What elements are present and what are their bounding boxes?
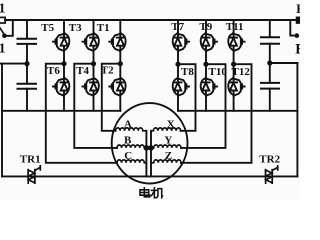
svg-text:E: E [295,42,300,58]
label motor (dian) [140,188,150,197]
transistor T1 [109,34,125,51]
svg-text:1: 1 [0,42,6,57]
svg-text:X: X [167,119,175,131]
capacitor C2 [18,84,37,89]
wire left rail [1,64,3,177]
node right capacitor midpoint [267,60,272,65]
connector box right [297,17,305,23]
svg-text:T7: T7 [171,21,184,33]
thyristor TR2 [266,166,278,183]
connector box left (terminal 1) [0,17,5,23]
svg-text:A: A [124,119,132,131]
winding B coil [117,145,146,148]
svg-text:TR1: TR1 [20,154,41,166]
capacitor C4 bottom lead [269,89,271,111]
winding A coil [116,128,147,131]
label motor (ji) [151,188,162,198]
capacitor C4 [261,83,279,89]
node switch S1 lower terminal [2,34,7,39]
svg-text:T4: T4 [76,65,89,77]
transistor T12 [228,78,244,95]
wire left bridge bottom bus [2,110,120,112]
wire T7-T8 leg [177,20,179,111]
transistor T7 [173,34,189,51]
capacitor C3 bottom lead [269,44,271,63]
node phase Z junction [231,62,236,67]
svg-text:Z: Z [165,150,172,162]
svg-text:B: B [124,134,132,146]
capacitor C2 top lead [26,64,28,84]
motor circle [112,103,188,183]
capacitor C3 [261,37,279,43]
wire T9-T10 leg [205,20,207,111]
wire right star bar [150,131,152,177]
wire phase Y tap [181,64,226,148]
node phase C junction [61,61,66,66]
wire T3-T4 leg [93,20,95,111]
thyristor TR1 [28,166,40,183]
capacitor C1 bottom lead [26,44,28,64]
node left star point [144,145,150,151]
capacitor C3 top lead [269,20,271,37]
svg-text:T3: T3 [69,22,82,34]
capacitor C1 top lead [26,20,28,38]
transistor T6 [53,78,69,95]
svg-text:E: E [296,2,300,16]
wire midpoint to left rail [1,63,28,65]
svg-text:T12: T12 [232,66,251,78]
wire T11-T12 leg [233,20,235,111]
svg-text:T1: T1 [97,22,110,34]
node phase Y junction [203,62,208,67]
wire phase C tap [46,64,117,163]
transistor T8 [173,78,189,95]
node left capacitor midpoint [24,61,29,66]
wire T5-T6 leg [63,20,65,111]
switch S1 blade [0,28,4,35]
wire phase A tap [102,64,121,131]
wire right bridge bottom bus [178,110,297,112]
svg-text:T8: T8 [181,66,194,78]
switch S2 drop wire [290,20,295,36]
node right star point [148,145,154,151]
node phase B junction [91,61,96,66]
wire midpoint to right rail [270,62,298,64]
svg-text:T5: T5 [41,22,54,34]
svg-text:T2: T2 [101,64,114,76]
wire phase Z tap [181,64,252,163]
transistor T3 [83,34,99,51]
transistor T10 [201,78,217,95]
capacitor C2 bottom lead [26,89,28,111]
node switch S2 terminal [295,33,300,38]
wire right rail [296,63,298,176]
transistor T2 [109,78,125,95]
svg-text:TR2: TR2 [259,154,280,166]
winding Z coil [151,160,181,163]
svg-text:T10: T10 [209,66,228,78]
capacitor C1 [18,39,37,44]
transistor T5 [53,34,69,51]
svg-text:T6: T6 [47,65,60,77]
wire bottom commutation bus [2,175,297,177]
winding Y coil [151,145,181,148]
node phase X junction [175,62,180,67]
wire T1-T2 leg [119,20,121,111]
switch S1 drop wire [7,20,13,36]
wire top DC bus [5,19,297,21]
capacitor C4 top lead [269,63,271,83]
transistor T11 [228,34,244,51]
wire phase X tap [178,64,196,131]
winding C coil [117,160,146,163]
svg-text:T11: T11 [226,21,244,33]
transistor T4 [83,78,99,95]
wire left star bar [145,131,147,177]
svg-text:1: 1 [0,1,6,16]
svg-text:T9: T9 [199,21,212,33]
wire phase B tap [74,64,117,148]
node phase A junction [118,61,123,66]
transistor T9 [201,34,217,51]
svg-text:Y: Y [164,134,172,146]
svg-text:C: C [124,150,132,162]
winding X coil [151,128,181,131]
